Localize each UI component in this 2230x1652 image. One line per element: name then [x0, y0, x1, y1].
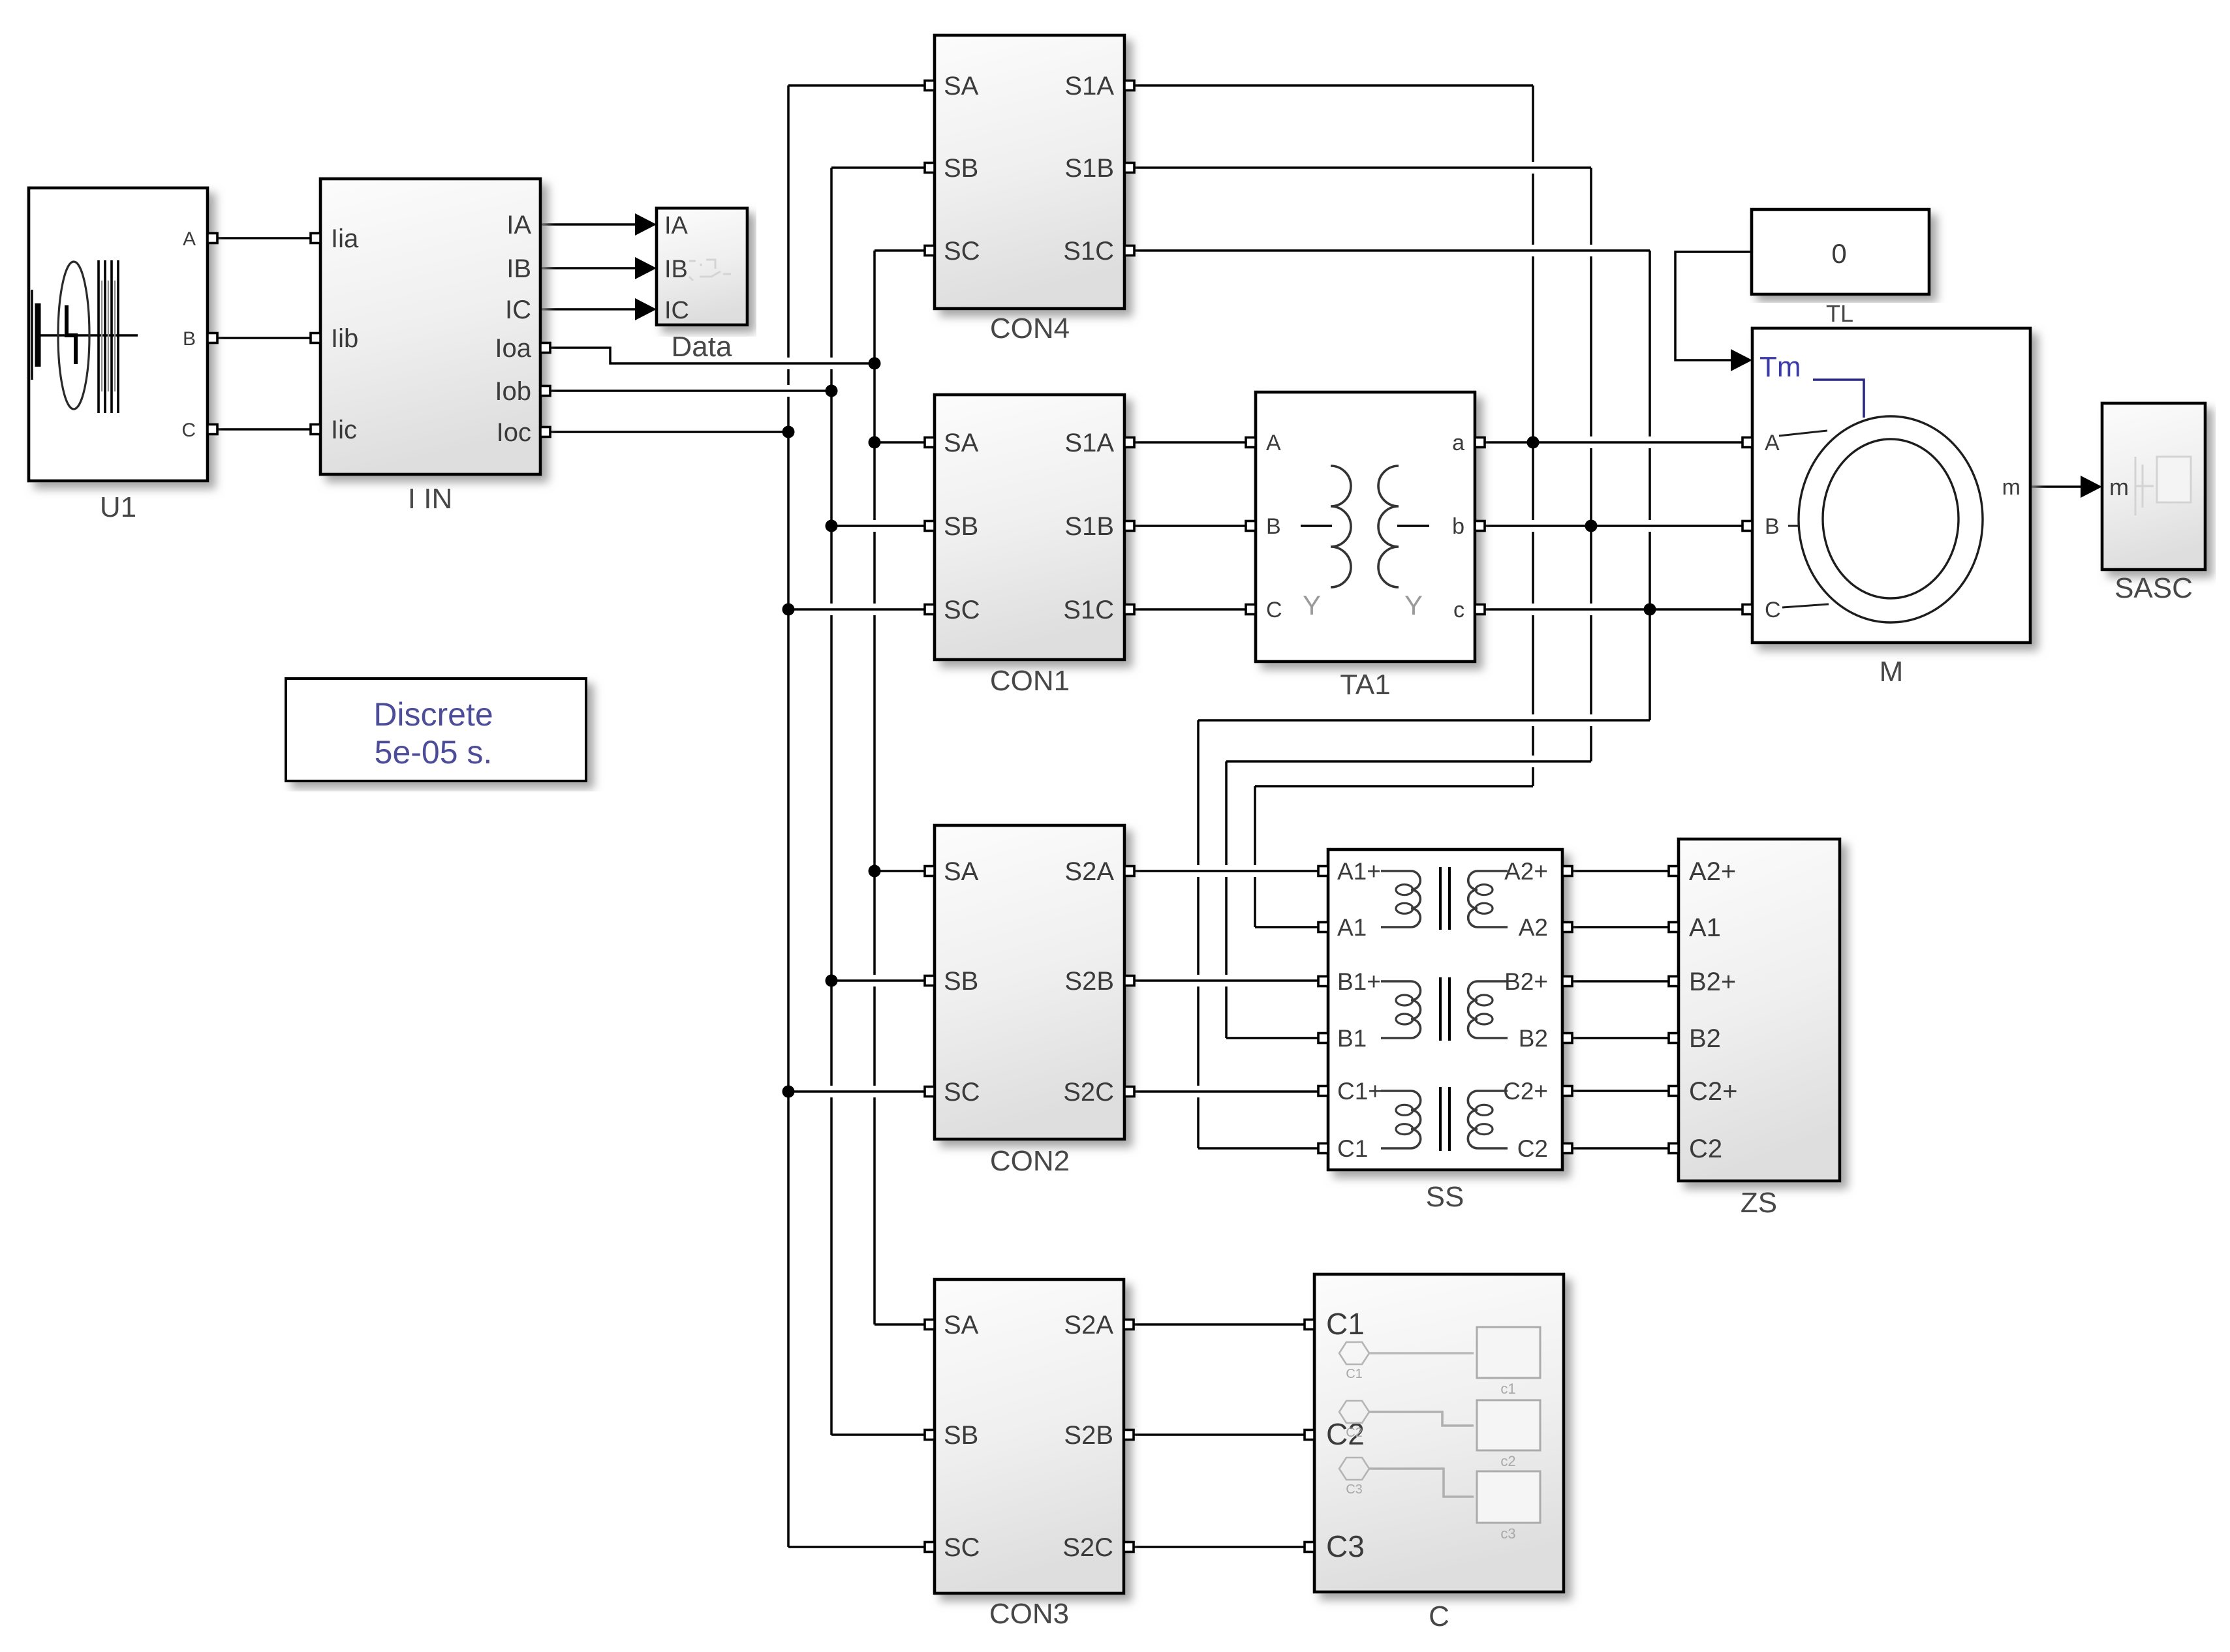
- svg-text:SA: SA: [944, 1311, 979, 1339]
- svg-text:SB: SB: [944, 967, 978, 996]
- wire bus C to CON1.SC: [788, 608, 925, 611]
- svg-text:IC: IC: [664, 297, 689, 324]
- svg-text:S1A: S1A: [1064, 429, 1114, 457]
- svg-text:C1: C1: [1326, 1307, 1365, 1341]
- wire SS to ZS row 6: [1572, 1147, 1669, 1150]
- svg-text:IB: IB: [506, 254, 531, 283]
- svg-text:CON1: CON1: [990, 665, 1070, 697]
- svg-text:B1: B1: [1337, 1025, 1367, 1052]
- svg-text:U1: U1: [100, 491, 136, 523]
- scope block SASC: [2102, 403, 2205, 604]
- svg-text:C: C: [1266, 598, 1282, 622]
- wire SS to ZS row 2: [1572, 926, 1669, 928]
- svg-text:S1C: S1C: [1063, 596, 1114, 624]
- svg-text:Ioc: Ioc: [497, 418, 531, 447]
- junction at 2438,806: [1585, 520, 1598, 532]
- svg-text:b: b: [1452, 514, 1464, 539]
- svg-text:Ioa: Ioa: [495, 334, 531, 363]
- svg-text:A1: A1: [1689, 913, 1721, 942]
- svg-text:Iib: Iib: [331, 324, 358, 353]
- wire IIN.Ioa to bus A (step down): [550, 348, 875, 363]
- svg-text:Tm: Tm: [1759, 351, 1801, 383]
- wire TA1.a to M.A: [1485, 441, 1742, 444]
- svg-text:A2: A2: [1519, 914, 1548, 941]
- svg-text:SB: SB: [944, 1421, 978, 1450]
- svg-text:B2: B2: [1689, 1024, 1721, 1053]
- svg-text:C: C: [1765, 598, 1781, 622]
- svg-text:A: A: [1765, 431, 1780, 455]
- wire IIN.Iob to bus B: [550, 390, 831, 392]
- wire CON4.S1B right then down (vertical vB): [1134, 166, 1591, 169]
- svg-text:C2+: C2+: [1689, 1077, 1738, 1106]
- svg-text:CON4: CON4: [990, 313, 1070, 344]
- wire SS to ZS row 5: [1572, 1090, 1669, 1092]
- converter block CON3: [925, 1279, 1134, 1593]
- svg-text:IA: IA: [506, 211, 531, 239]
- svg-text:Y: Y: [1404, 590, 1423, 620]
- svg-text:SC: SC: [944, 1078, 980, 1107]
- svg-text:A1+: A1+: [1337, 858, 1381, 885]
- wire IIN.IC to Data with arrowhead: [540, 308, 640, 311]
- wire TA1.b to M.B: [1485, 525, 1742, 527]
- svg-text:A1: A1: [1337, 914, 1367, 941]
- feeder wire vC to SS.C1: [1198, 719, 1650, 722]
- svg-text:C1+: C1+: [1337, 1078, 1382, 1105]
- junction at 2528,934: [1644, 604, 1656, 616]
- wire CON1.S1A to TA1.A: [1134, 441, 1246, 444]
- wire TA1.c to M.C: [1485, 608, 1742, 611]
- junction at 1340,557: [869, 358, 881, 370]
- junction at 1208,1673: [782, 1086, 795, 1098]
- svg-text:S2C: S2C: [1063, 1078, 1114, 1107]
- wire bus B to CON3.SB: [831, 1433, 925, 1436]
- wire M.m to SASC with arrowhead: [2030, 485, 2085, 488]
- svg-text:Iob: Iob: [495, 377, 531, 406]
- svg-text:Iic: Iic: [331, 416, 357, 444]
- wire CON4.S1C right then down (vertical vC): [1134, 249, 1650, 252]
- wire SS to ZS row 1: [1572, 870, 1669, 872]
- wire bus A to CON2.SA: [875, 870, 925, 872]
- svg-text:A2+: A2+: [1504, 858, 1548, 885]
- svg-text:SA: SA: [944, 429, 979, 457]
- svg-text:S1C: S1C: [1063, 237, 1114, 266]
- constant block TL: [1752, 209, 1929, 327]
- wire U1.B to IIN.Iib: [218, 337, 311, 339]
- svg-text:C1: C1: [1346, 1367, 1363, 1381]
- wire bus C to CON4.SA: [788, 84, 925, 87]
- voltage source U1: [29, 188, 217, 523]
- transformer block TA1: [1246, 392, 1485, 701]
- svg-text:M: M: [1880, 656, 1904, 688]
- svg-text:SS: SS: [1426, 1181, 1464, 1213]
- svg-text:S1B: S1B: [1064, 512, 1114, 541]
- junction at 1208,934: [782, 604, 795, 616]
- svg-text:c2: c2: [1500, 1453, 1515, 1469]
- wire CON3.S2B to C.C2: [1134, 1433, 1305, 1436]
- wire CON4.S1A right then down (vertical vA): [1134, 84, 1533, 87]
- junction at 1274,1503: [826, 975, 838, 987]
- motor block M: [1742, 328, 2030, 688]
- wire CON3.S2C to C.C3: [1134, 1546, 1305, 1548]
- wire CON1.S1B to TA1.B: [1134, 525, 1246, 527]
- svg-text:SC: SC: [944, 237, 980, 266]
- wire IIN.IB to Data with arrowhead: [540, 267, 640, 269]
- svg-text:SA: SA: [944, 857, 979, 886]
- svg-text:C3: C3: [1346, 1482, 1363, 1497]
- wire U1.C to IIN.Iic: [218, 428, 311, 431]
- svg-text:c3: c3: [1500, 1525, 1515, 1542]
- svg-text:A: A: [1266, 431, 1281, 455]
- bus B vertical (Iob / CON4.SB / CON1.SB / CON2.SB / CON3.SB): [830, 168, 833, 1435]
- svg-text:S1B: S1B: [1064, 154, 1114, 183]
- wire IIN.IA to Data with arrowhead: [540, 223, 640, 226]
- svg-text:B1+: B1+: [1337, 968, 1381, 995]
- wire SS to ZS row 3: [1572, 980, 1669, 983]
- junction at 1274,599: [826, 385, 838, 397]
- svg-text:c: c: [1453, 598, 1464, 622]
- junction at 2349,678: [1527, 436, 1540, 449]
- svg-text:ZS: ZS: [1741, 1187, 1777, 1219]
- wire CON2.S2B to SS.B1plus: [1134, 979, 1318, 982]
- wire bus B to CON1.SB: [831, 525, 925, 527]
- svg-text:C2: C2: [1689, 1135, 1722, 1163]
- svg-text:TL: TL: [1826, 300, 1853, 327]
- svg-text:S2C: S2C: [1062, 1533, 1113, 1562]
- svg-text:Y: Y: [1303, 590, 1321, 620]
- subsystem block C: [1305, 1274, 1564, 1632]
- wire bus B to CON2.SB: [831, 979, 925, 982]
- svg-text:a: a: [1452, 431, 1464, 455]
- svg-text:IC: IC: [505, 296, 531, 324]
- wire CON2.S2A to SS.A1plus: [1134, 870, 1318, 872]
- svg-text:SB: SB: [944, 154, 978, 183]
- wire U1.A to IIN.Iia: [218, 237, 311, 239]
- svg-text:A: A: [183, 228, 196, 250]
- feeder wire vA to SS.A1: [1255, 785, 1533, 788]
- annotation box Discrete 5e-05 s.: [286, 679, 586, 781]
- wire SS to ZS row 4: [1572, 1037, 1669, 1039]
- svg-text:IB: IB: [664, 256, 688, 283]
- svg-text:m: m: [2109, 474, 2129, 500]
- scope block Data: [657, 208, 747, 363]
- svg-text:c1: c1: [1500, 1381, 1515, 1397]
- impedance block ZS: [1669, 839, 1840, 1219]
- wire bus C to CON3.SC: [788, 1546, 925, 1548]
- svg-text:CON3: CON3: [989, 1598, 1069, 1630]
- svg-text:Discrete: Discrete: [373, 696, 493, 733]
- converter block CON1: [925, 395, 1134, 660]
- converter block CON4: [925, 35, 1134, 309]
- svg-text:B2+: B2+: [1504, 968, 1548, 995]
- junction at 1340,1335: [869, 865, 881, 878]
- svg-text:SA: SA: [944, 72, 979, 100]
- bus C vertical (Ioc / CON4.SA / CON1.SC / CON2.SC / CON3.SC): [787, 85, 790, 1547]
- bus A vertical (Ioa / CON4.SC / CON1.SA / CON2.SA / CON3.SA): [873, 251, 876, 1324]
- svg-text:S2B: S2B: [1064, 1421, 1113, 1450]
- svg-text:B2: B2: [1519, 1025, 1548, 1052]
- svg-text:C2: C2: [1346, 1426, 1363, 1440]
- wire TL to M.Tm with arrowhead: [1675, 252, 1752, 360]
- svg-text:C: C: [1429, 1600, 1449, 1632]
- svg-text:TA1: TA1: [1340, 669, 1390, 701]
- svg-text:Data: Data: [672, 331, 732, 363]
- measurement block I IN: [311, 179, 550, 515]
- svg-text:5e-05 s.: 5e-05 s.: [375, 734, 493, 771]
- svg-text:S2A: S2A: [1064, 1311, 1113, 1339]
- wire bus A to CON4.SC: [875, 249, 925, 252]
- wire bus B to CON4.SB: [831, 166, 925, 169]
- transformer bank block SS: [1318, 849, 1572, 1213]
- svg-text:0: 0: [1831, 238, 1846, 269]
- svg-text:B: B: [183, 328, 196, 350]
- svg-text:C1: C1: [1337, 1135, 1368, 1162]
- svg-text:S2B: S2B: [1064, 967, 1114, 996]
- converter block CON2: [925, 825, 1134, 1139]
- junction at 1208,662: [782, 426, 795, 438]
- svg-text:B: B: [1266, 514, 1281, 539]
- svg-text:C: C: [181, 420, 196, 441]
- junction at 1274,806: [826, 520, 838, 532]
- svg-text:SC: SC: [944, 1533, 980, 1562]
- wire bus A to CON1.SA: [875, 441, 925, 444]
- svg-text:IA: IA: [664, 212, 689, 239]
- wire CON3.S2A to C.C1: [1134, 1323, 1305, 1326]
- svg-text:A2+: A2+: [1689, 857, 1736, 886]
- svg-text:SC: SC: [944, 596, 980, 624]
- wire CON1.S1C to TA1.C: [1134, 608, 1246, 611]
- svg-text:SB: SB: [944, 512, 978, 541]
- svg-text:Iia: Iia: [331, 224, 359, 253]
- svg-text:SASC: SASC: [2114, 572, 2193, 604]
- svg-text:S2A: S2A: [1064, 857, 1114, 886]
- wire IIN.Ioc to bus C: [550, 431, 788, 433]
- feeder wire vB to SS.B1: [1226, 760, 1591, 763]
- svg-text:CON2: CON2: [990, 1145, 1070, 1177]
- svg-text:B: B: [1765, 514, 1780, 539]
- wire bus A to CON3.SA: [875, 1323, 925, 1326]
- wire bus C to CON2.SC: [788, 1090, 925, 1093]
- junction at 1340,678: [869, 436, 881, 449]
- svg-text:I IN: I IN: [408, 483, 452, 515]
- svg-text:S1A: S1A: [1064, 72, 1114, 100]
- svg-text:C2+: C2+: [1503, 1078, 1548, 1105]
- svg-text:C3: C3: [1326, 1529, 1365, 1563]
- svg-text:C2: C2: [1517, 1135, 1548, 1162]
- svg-text:m: m: [2002, 475, 2021, 500]
- wire CON2.S2C to SS.C1plus: [1134, 1090, 1318, 1093]
- svg-text:B2+: B2+: [1689, 968, 1736, 996]
